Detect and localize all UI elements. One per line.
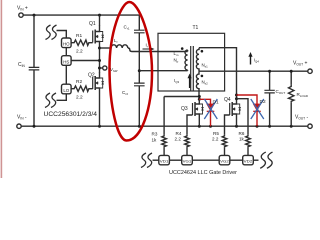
- current arrow IQ4: [250, 56, 252, 65]
- transformer secondary winding Ns2: [196, 71, 199, 96]
- wire Q3 source to rail: [198, 120, 200, 126]
- svg-text:2.2: 2.2: [76, 49, 83, 55]
- cross-out X over D1: [204, 99, 217, 119]
- wire switch node vertical: [99, 48, 101, 73]
- svg-text:UCC24624 LLC Gate Driver: UCC24624 LLC Gate Driver: [169, 170, 237, 176]
- resistor R1: [71, 40, 93, 45]
- node junction bottom rail / Q4 source: [235, 125, 238, 128]
- node junction bottom rail / Cr2: [138, 125, 141, 128]
- IC UCC256301 continuation squiggle bottom: [45, 93, 56, 108]
- svg-text:R5: R5: [213, 131, 219, 136]
- node Vout+ terminal: [308, 69, 312, 73]
- node junction Q4 drain / D2: [235, 94, 238, 97]
- resistor R5: [222, 135, 227, 156]
- svg-text:Q2: Q2: [88, 73, 95, 79]
- wire Ns1 top to Q4 drain: [199, 48, 237, 98]
- wire tank: Lr to primary (step down): [128, 48, 188, 52]
- svg-text:2.2: 2.2: [212, 137, 219, 142]
- wire IC spine HO-HS: [65, 48, 67, 56]
- transistor Q1: [93, 26, 104, 48]
- wire Q1 drain from rail: [99, 15, 101, 26]
- wire Q3 gate to R4: [187, 115, 193, 135]
- gate driver continuation squiggle right: [260, 152, 272, 168]
- node junction Q4 drain / R6: [235, 97, 238, 100]
- pin box VG1: [182, 155, 193, 164]
- svg-text:2.2: 2.2: [175, 137, 182, 142]
- pin box VG2: [219, 155, 230, 164]
- inductor Lr: [111, 45, 128, 48]
- wire VG2-VD2: [230, 159, 243, 161]
- resistor R4: [185, 135, 190, 156]
- wire VD1-VG1: [169, 159, 181, 161]
- node junction bottom rail / Q2 source: [98, 125, 101, 128]
- node junction switch/tank: [98, 47, 101, 50]
- polarity dot primary: [181, 47, 184, 50]
- node junction bottom rail / D2: [256, 125, 259, 128]
- node junction Q3 drain / D1: [198, 98, 201, 101]
- capacitor Cin: [33, 15, 35, 126]
- wire top rail Vin+: [23, 14, 139, 16]
- node Vout- terminal: [308, 124, 312, 128]
- transistor Q3: [193, 98, 204, 120]
- svg-text:Q3: Q3: [181, 106, 188, 112]
- node junction bottom rail / Rload: [290, 125, 293, 128]
- svg-text:D1: D1: [213, 100, 219, 106]
- node junction bottom rail / Cout: [268, 125, 271, 128]
- svg-text:LO: LO: [63, 88, 69, 93]
- node junction bottom rail / Q3 source: [198, 125, 201, 128]
- svg-text:R1: R1: [76, 33, 82, 39]
- node junction switch/Vsw: [98, 67, 101, 70]
- capacitor Cout: [264, 71, 274, 126]
- current arrow IQ3: [189, 77, 191, 88]
- capacitor Cr1: [134, 15, 145, 83]
- wire bottom ground rail: [21, 125, 308, 127]
- svg-text:R4: R4: [176, 131, 182, 136]
- node junction bottom rail / Cin: [33, 125, 36, 128]
- transistor Q4: [230, 98, 241, 120]
- polarity dot Ns1: [201, 50, 204, 53]
- left page border line: [1, 0, 3, 178]
- wire primary return to Cr: [139, 70, 187, 72]
- capacitor Cr2: [134, 83, 145, 126]
- svg-text:1k: 1k: [239, 137, 245, 142]
- svg-text:Q1: Q1: [89, 21, 96, 27]
- wire Q4 gate to R5: [225, 115, 230, 135]
- node junction Vout+ / Cout: [268, 70, 271, 73]
- annotation red ellipse around resonant tank: [110, 2, 153, 141]
- pin box LO: [62, 84, 72, 94]
- transformer primary winding Np/Lm: [188, 45, 191, 52]
- svg-text:R6: R6: [239, 131, 245, 136]
- node junction Q3 drain / sense: [198, 95, 201, 98]
- svg-text:VG1: VG1: [183, 159, 192, 164]
- svg-text:R3: R3: [152, 131, 158, 136]
- svg-text:HO: HO: [63, 42, 70, 47]
- wire LO to bottom squiggle: [57, 94, 67, 101]
- node junction bottom rail / D1: [209, 125, 212, 128]
- wire tank: switch node to Lr: [100, 47, 112, 49]
- wire HS to switch node: [71, 60, 99, 62]
- wire IC spine HS-LO: [65, 65, 67, 84]
- wire VG1-VG2: [192, 159, 219, 161]
- current arrow Ir: [143, 48, 152, 50]
- wire sense VD1: R3 row: [164, 96, 199, 98]
- svg-text:VG2: VG2: [220, 159, 229, 164]
- node Vin- terminal: [17, 124, 21, 128]
- svg-text:UCC256301/2/3/4: UCC256301/2/3/4: [44, 112, 98, 118]
- node Vsw test point: [100, 67, 103, 69]
- resistor Rload: [289, 71, 294, 126]
- transformer secondary winding Ns1: [196, 48, 199, 71]
- pin box VD2: [243, 155, 254, 164]
- node junction top rail / Q1 drain: [98, 14, 101, 17]
- resistor R2: [71, 86, 93, 91]
- transformer T1 box: [158, 33, 225, 91]
- pin box HS: [62, 56, 72, 66]
- svg-text:R2: R2: [76, 79, 82, 85]
- svg-text:1k: 1k: [152, 138, 158, 143]
- wire squiggle to HO pin: [57, 31, 67, 39]
- svg-text:2.2: 2.2: [76, 95, 83, 101]
- node Vin+ terminal: [19, 13, 23, 17]
- svg-text:VD1: VD1: [160, 159, 169, 164]
- wire sense VD2: R6 tap: [237, 99, 249, 135]
- svg-text:T1: T1: [193, 25, 199, 31]
- cross-out X over D2: [251, 99, 264, 119]
- transistor Q2: [93, 72, 104, 94]
- node junction switch/HS: [98, 59, 101, 62]
- wire squiggle to VD1: [153, 159, 159, 161]
- node junction Vout+ / Rload: [290, 70, 293, 73]
- resistor R3: [162, 97, 167, 156]
- pin box VD1: [159, 155, 170, 164]
- transformer core: [191, 46, 194, 91]
- svg-text:VD2: VD2: [244, 159, 253, 164]
- svg-text:D2: D2: [260, 99, 266, 105]
- node junction Cr / primary return: [138, 69, 141, 72]
- resistor R6: [246, 135, 251, 156]
- pin box HO: [62, 38, 72, 48]
- node junction top rail / Cin: [33, 14, 36, 17]
- diode D2 (red, removed): [237, 95, 261, 126]
- svg-text:HS: HS: [63, 59, 69, 64]
- diode D1 (red, removed): [199, 99, 214, 126]
- wire VD2 to squiggle: [253, 159, 258, 161]
- wire Q2 source to ground rail: [99, 94, 101, 126]
- polarity dot Ns2: [201, 75, 204, 78]
- IC UCC256301 continuation squiggle top: [46, 25, 57, 40]
- svg-text:Q4: Q4: [224, 97, 231, 103]
- wire Q4 source to rail: [236, 120, 238, 126]
- gate driver continuation squiggle left: [141, 153, 152, 168]
- wire Q3 drain node: [198, 97, 200, 99]
- wire center tap to Vout+ rail: [199, 70, 308, 72]
